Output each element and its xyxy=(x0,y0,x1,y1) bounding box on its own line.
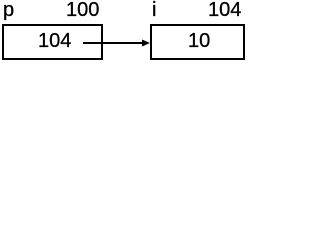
label p (variable name over left box) xyxy=(3,0,14,21)
value 104 (contents of p) xyxy=(38,30,71,52)
label i (variable name over right box) xyxy=(152,0,156,21)
box i (memory cell at address 104) xyxy=(150,24,245,60)
arrow from p's value to box i xyxy=(0,0,249,64)
wire (arrow shaft) xyxy=(83,42,143,44)
value 10 (contents of i) xyxy=(188,30,210,52)
arrowhead xyxy=(142,40,150,47)
label 104 (address of i) xyxy=(208,0,241,21)
box p (memory cell at address 100) xyxy=(2,24,103,60)
label 100 (address of p) xyxy=(66,0,99,21)
